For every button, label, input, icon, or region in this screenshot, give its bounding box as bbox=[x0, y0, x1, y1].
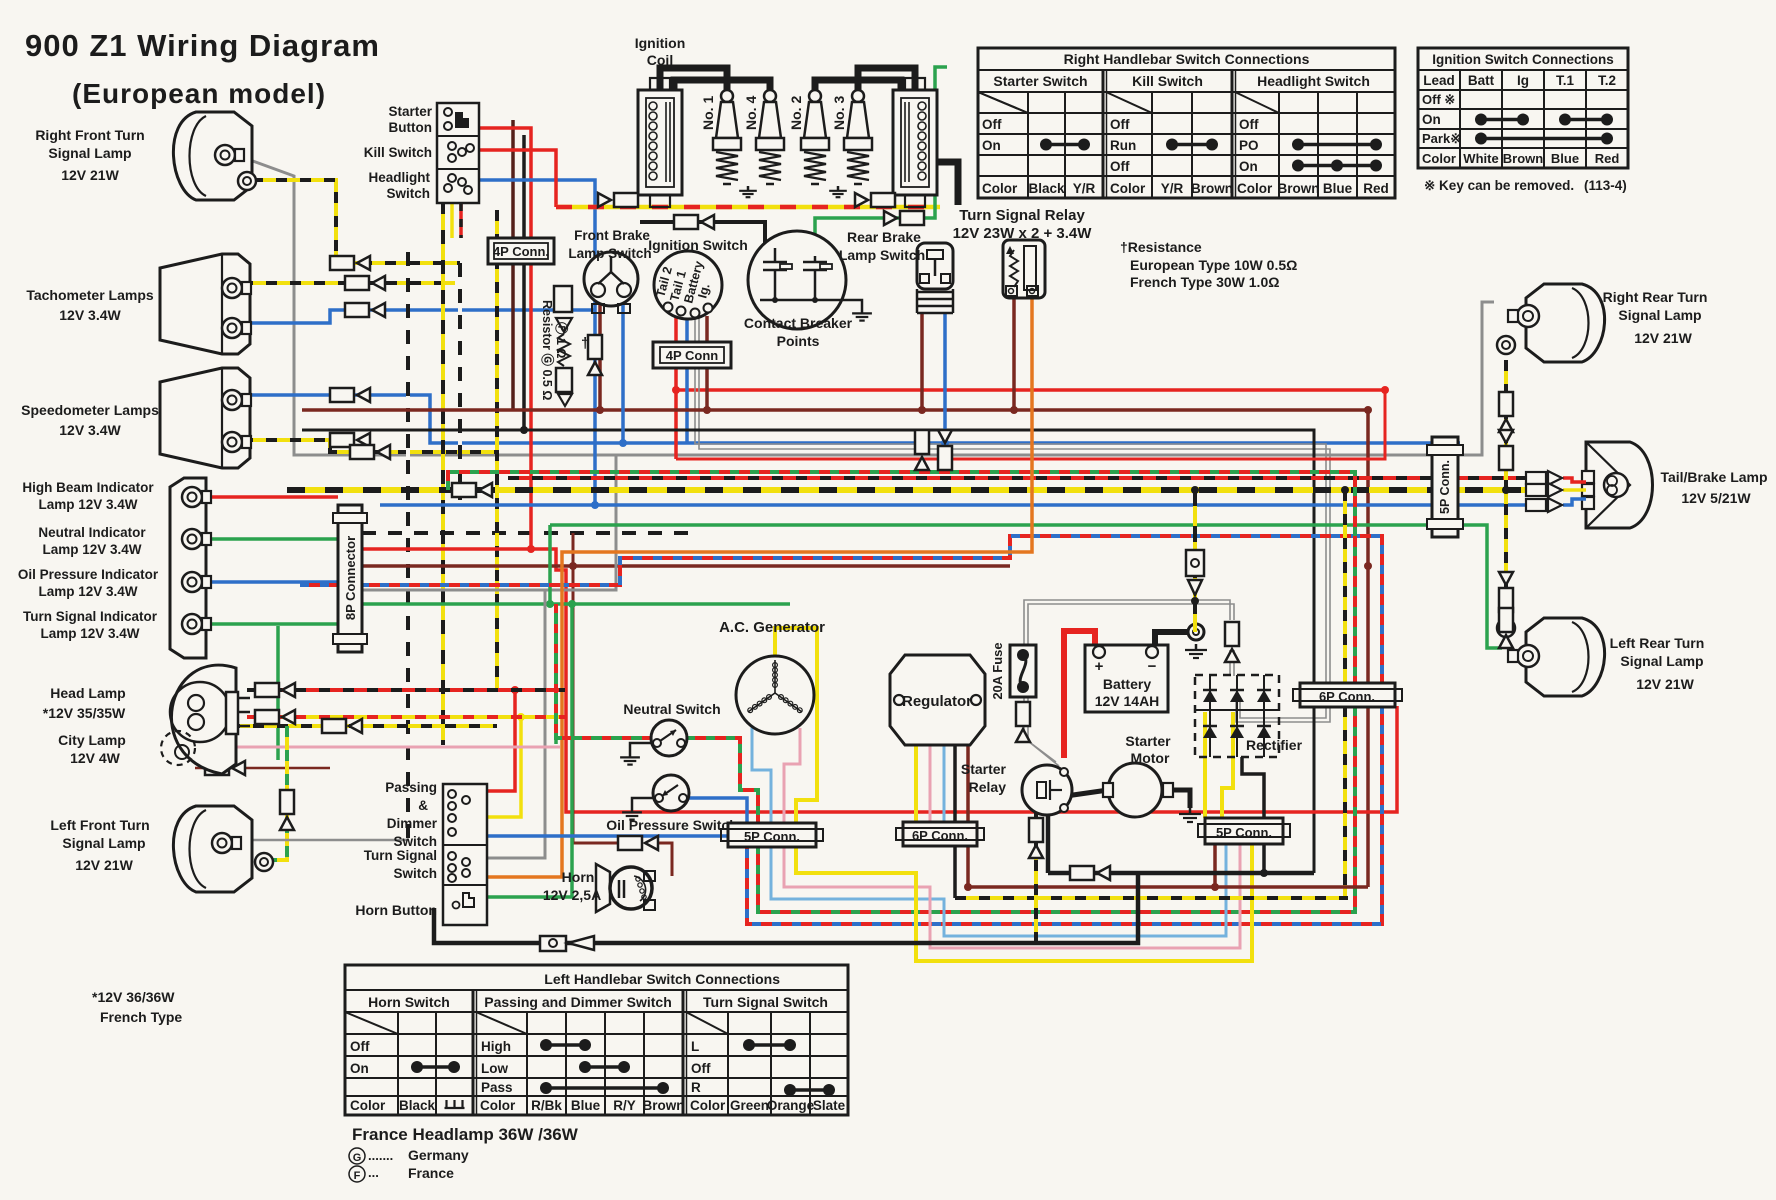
wire black dash vertical x408 bbox=[406, 252, 410, 840]
6P connector right bbox=[1300, 683, 1395, 707]
wire red/green dash band y472 bbox=[448, 472, 1355, 912]
svg-text:Headlight Switch: Headlight Switch bbox=[1257, 73, 1370, 89]
wire black thick battery minus bbox=[1155, 632, 1189, 652]
svg-text:Off ※: Off ※ bbox=[1422, 92, 1455, 107]
svg-text:Brown: Brown bbox=[1503, 151, 1544, 166]
svg-text:On: On bbox=[982, 138, 1001, 153]
svg-text:Off: Off bbox=[350, 1039, 370, 1054]
wire yellow/black bottom band y898 bbox=[955, 896, 1348, 900]
svg-text:Oil Pressure Indicator: Oil Pressure Indicator bbox=[18, 567, 159, 582]
svg-text:4P Conn.: 4P Conn. bbox=[493, 244, 549, 259]
svg-text:France Headlamp 36W /36W: France Headlamp 36W /36W bbox=[352, 1125, 579, 1144]
bullet connectors bbox=[330, 256, 354, 270]
wire pink AC generator bbox=[784, 728, 800, 823]
20A fuse bbox=[1010, 645, 1036, 697]
wire blue oil indicator bbox=[204, 580, 338, 584]
svg-text:12V 3.4W: 12V 3.4W bbox=[59, 307, 121, 323]
fuse lead connector bbox=[1016, 702, 1030, 726]
wire black starter main line y873 bbox=[1048, 871, 1314, 876]
svg-text:Run: Run bbox=[1110, 138, 1136, 153]
svg-text:Passing and Dimmer Switch: Passing and Dimmer Switch bbox=[484, 994, 672, 1010]
wire red band y549 bbox=[362, 549, 1397, 812]
wire dark brown vertical from switch box bbox=[511, 120, 515, 410]
wire yellow/red headlamp y717 bbox=[247, 715, 565, 719]
wire black jumper bottom bbox=[1036, 873, 1138, 943]
tail lamp bullet connectors bbox=[1526, 472, 1546, 484]
svg-text:Germany: Germany bbox=[408, 1147, 469, 1163]
battery bbox=[1085, 645, 1168, 712]
svg-text:Signal Lamp: Signal Lamp bbox=[1618, 307, 1701, 323]
wire green turn indicator bbox=[204, 622, 338, 626]
svg-text:6P Conn.: 6P Conn. bbox=[1319, 689, 1375, 704]
svg-text:Red: Red bbox=[1595, 151, 1620, 166]
wire red long y390 bbox=[676, 388, 1385, 392]
AC generator bbox=[736, 656, 814, 734]
wire brown to horn bbox=[573, 533, 618, 843]
wire black regulator bbox=[953, 745, 957, 822]
svg-text:Low: Low bbox=[481, 1061, 508, 1076]
wire pink 5P conn loop bbox=[784, 845, 1240, 948]
svg-text:Color: Color bbox=[1422, 151, 1456, 166]
svg-text:Off: Off bbox=[1110, 159, 1130, 174]
wire red passing switch up to headlamp row bbox=[486, 690, 515, 791]
spark plug grounds bbox=[747, 186, 750, 191]
svg-text:−: − bbox=[1148, 658, 1157, 675]
svg-text:City Lamp: City Lamp bbox=[58, 732, 126, 748]
4P connector ignition switch bbox=[653, 342, 731, 368]
svg-text:12V 3.4W: 12V 3.4W bbox=[59, 422, 121, 438]
svg-text:Rear Brake: Rear Brake bbox=[847, 229, 921, 245]
indicator lamp panel bbox=[170, 478, 206, 658]
5P connector vertical right bbox=[1432, 437, 1458, 537]
horn bbox=[596, 864, 610, 912]
svg-text:12V 21W: 12V 21W bbox=[1634, 330, 1692, 346]
wire green vertical x556 bbox=[554, 604, 558, 744]
svg-text:High: High bbox=[481, 1039, 511, 1054]
wire grey right rear lamp bbox=[1443, 302, 1494, 455]
wire red to tail lamp terminal bbox=[1563, 478, 1586, 482]
wire yellow switch box to 4P conn bbox=[450, 203, 454, 238]
city lamp bbox=[161, 731, 195, 765]
wire brown regulator bbox=[966, 745, 970, 822]
svg-text:12V 14AH: 12V 14AH bbox=[1095, 693, 1160, 709]
svg-text:Signal Lamp: Signal Lamp bbox=[48, 145, 131, 161]
svg-text:French Type 30W 1.0Ω: French Type 30W 1.0Ω bbox=[1130, 274, 1279, 290]
wire green turn signal switch up bbox=[486, 604, 572, 897]
svg-text:Relay: Relay bbox=[969, 779, 1007, 795]
svg-text:Brown: Brown bbox=[643, 1098, 685, 1113]
thick black lead right coil down bbox=[937, 162, 958, 205]
svg-text:Neutral Switch: Neutral Switch bbox=[623, 701, 720, 717]
horn circuit bullet bbox=[540, 936, 566, 951]
svg-text:Blue: Blue bbox=[1323, 181, 1353, 196]
svg-text:Off: Off bbox=[691, 1061, 711, 1076]
wire brown 5P right leg bbox=[1213, 845, 1217, 887]
wire yellow right rear turn signal vertical bbox=[1504, 360, 1508, 640]
svg-text:Switch: Switch bbox=[386, 186, 430, 201]
left front turn signal lamp bbox=[173, 806, 252, 892]
wire blue to tail lamp terminal bbox=[1563, 499, 1586, 505]
svg-text:5P Conn.: 5P Conn. bbox=[1216, 825, 1272, 840]
spark plug 1 bbox=[721, 90, 733, 102]
svg-text:Switch: Switch bbox=[393, 834, 437, 849]
wire yellow/black band to ground bolt bbox=[1193, 490, 1197, 632]
left rear turn signal lamp bbox=[1526, 618, 1605, 696]
svg-text:On: On bbox=[1422, 112, 1441, 127]
wire brown ignition switch down bbox=[705, 316, 709, 410]
svg-text:Lamp 12V 3.4W: Lamp 12V 3.4W bbox=[40, 626, 139, 641]
wire black long y430 to starter relay bbox=[302, 430, 1314, 873]
svg-text:Lamp 12V 3.4W: Lamp 12V 3.4W bbox=[42, 542, 141, 557]
svg-text:Starter: Starter bbox=[1125, 733, 1171, 749]
svg-text:12V 21W: 12V 21W bbox=[75, 857, 133, 873]
svg-text:F: F bbox=[354, 1170, 361, 1182]
svg-text:Color: Color bbox=[480, 1098, 516, 1113]
regulator bbox=[890, 655, 985, 745]
oil pressure switch bbox=[653, 775, 689, 811]
svg-text:Regulator: Regulator bbox=[902, 693, 972, 710]
wire yellow/black right front turn signal bbox=[252, 180, 460, 263]
svg-text:Right Front Turn: Right Front Turn bbox=[35, 127, 144, 143]
svg-text:White: White bbox=[1463, 151, 1498, 166]
svg-text:Head Lamp: Head Lamp bbox=[50, 685, 125, 701]
wire red high beam bbox=[204, 495, 338, 499]
svg-text:Color: Color bbox=[350, 1098, 386, 1113]
handlebar switch box bbox=[437, 103, 479, 203]
table Left Handlebar Switch Connections bbox=[345, 965, 848, 1115]
wire red thick battery to starter relay bbox=[1064, 631, 1095, 758]
neutral switch bbox=[651, 720, 687, 756]
wire black to contact breaker bbox=[640, 222, 765, 248]
wire green neutral indicator bbox=[204, 537, 338, 541]
wire thin grey twisted pair fuse to rectifier bbox=[1024, 600, 1230, 645]
svg-text:*12V 35/35W: *12V 35/35W bbox=[43, 705, 126, 721]
svg-text:European Type 10W 0.5Ω: European Type 10W 0.5Ω bbox=[1130, 257, 1297, 273]
wire yellow regulator bbox=[914, 745, 918, 822]
svg-text:...: ... bbox=[368, 1165, 379, 1180]
wire green y604 from 8P connector bbox=[362, 602, 790, 606]
wire grey left front lamp bbox=[248, 839, 408, 842]
svg-text:Contact Breaker: Contact Breaker bbox=[744, 315, 853, 331]
svg-text:Turn Signal Indicator: Turn Signal Indicator bbox=[23, 609, 158, 624]
svg-text:Dimmer: Dimmer bbox=[387, 816, 438, 831]
svg-text:12V 23W x 2 + 3.4W: 12V 23W x 2 + 3.4W bbox=[953, 225, 1093, 242]
wire yellow AC generator bbox=[775, 628, 817, 823]
svg-text:Lamp Switch: Lamp Switch bbox=[568, 246, 651, 261]
svg-text:L: L bbox=[691, 1039, 699, 1054]
wire red/black dash band y478 bbox=[508, 476, 1528, 480]
svg-text:Black: Black bbox=[1028, 181, 1065, 196]
wire red/green neutral switch to 5P conn bbox=[686, 738, 758, 823]
svg-text:※ Key can be removed.: ※ Key can be removed. bbox=[1424, 178, 1574, 193]
5P connector right bbox=[1205, 818, 1283, 844]
svg-text:Lamp Switch: Lamp Switch bbox=[839, 247, 925, 263]
svg-text:Color: Color bbox=[690, 1098, 726, 1113]
svg-text:Passing: Passing bbox=[385, 780, 437, 795]
svg-text:Right Rear Turn: Right Rear Turn bbox=[1603, 289, 1708, 305]
wire blue rear brake leg bbox=[943, 312, 947, 443]
svg-text:Front Brake: Front Brake bbox=[574, 228, 650, 243]
svg-text:Ignition Switch: Ignition Switch bbox=[648, 237, 748, 253]
wire blue speedometer bbox=[242, 395, 1460, 443]
wire green vertical x278 bbox=[276, 626, 280, 760]
svg-text:No. 4: No. 4 bbox=[743, 96, 759, 130]
svg-text:Horn Button: Horn Button bbox=[355, 902, 437, 918]
5P connector left bbox=[728, 823, 816, 847]
svg-text:Brown: Brown bbox=[1191, 181, 1233, 196]
svg-text:Batt: Batt bbox=[1468, 73, 1495, 88]
wire red kill switch to coil bbox=[479, 150, 556, 207]
svg-text:Color: Color bbox=[1110, 181, 1146, 196]
wire blue dimmer switch to 5P conn bbox=[486, 834, 728, 838]
svg-text:5P Conn.: 5P Conn. bbox=[744, 829, 800, 844]
svg-text:12V 2,5A: 12V 2,5A bbox=[543, 887, 601, 903]
wire black horn button loop bbox=[434, 908, 1036, 943]
front brake lamp switch bbox=[584, 252, 638, 306]
table Right Handlebar Switch Connections bbox=[978, 48, 1395, 198]
spark plug 2 bbox=[809, 90, 821, 102]
ignition switch bbox=[654, 251, 722, 319]
svg-text:Switch: Switch bbox=[393, 866, 437, 881]
4P connector top bbox=[488, 238, 554, 264]
svg-text:Tail/Brake Lamp: Tail/Brake Lamp bbox=[1660, 469, 1767, 485]
wire blue oil switch to 5P conn bbox=[688, 798, 747, 823]
wire blue band y511 bbox=[380, 503, 1528, 507]
wire black 5P right leg to starter line bbox=[1262, 845, 1266, 873]
wire red vertical from starter button bbox=[479, 128, 531, 549]
svg-text:900 Z1 Wiring Diagram: 900 Z1 Wiring Diagram bbox=[25, 28, 380, 63]
wire black starter relay to motor bbox=[1066, 790, 1108, 796]
wire black dash row y533 bbox=[362, 531, 700, 535]
svg-text:Park※: Park※ bbox=[1422, 131, 1461, 146]
head lamp bbox=[171, 665, 236, 774]
wire grey pair ignition switch bbox=[695, 316, 1326, 718]
wire brown turn signal relay bbox=[1012, 298, 1016, 410]
contact breaker points bbox=[748, 231, 846, 329]
wire yellow/black vertical x1345 bbox=[1343, 490, 1347, 898]
tachometer lamps bbox=[160, 254, 250, 354]
wire yellow/green vertical x287 bbox=[265, 726, 287, 860]
svg-text:Starter: Starter bbox=[961, 761, 1007, 777]
svg-text:Horn: Horn bbox=[562, 869, 595, 885]
spark plug 4 bbox=[764, 90, 776, 102]
svg-text:Lamp 12V 3.4W: Lamp 12V 3.4W bbox=[38, 497, 137, 512]
wire black rectifier to 5P conn bbox=[1242, 757, 1264, 818]
svg-text:Oil Pressure Switch: Oil Pressure Switch bbox=[606, 817, 738, 833]
svg-text:Kill Switch: Kill Switch bbox=[1132, 73, 1203, 89]
svg-text:Lead: Lead bbox=[1423, 73, 1455, 88]
wire yellow 5P conn loop bbox=[796, 845, 1252, 961]
wire blue front brake leg bbox=[621, 305, 625, 443]
wire red/yellow under ignition coils bbox=[556, 205, 940, 210]
svg-text:PO: PO bbox=[1239, 138, 1259, 153]
wire yellow/black vertical x497 bbox=[495, 210, 499, 692]
svg-text:4P Conn: 4P Conn bbox=[666, 348, 719, 363]
svg-text:Left Rear Turn: Left Rear Turn bbox=[1610, 635, 1705, 651]
turn signal relay bbox=[1003, 240, 1045, 298]
8P connector bbox=[338, 505, 362, 652]
wire dark brown long y410 bbox=[302, 408, 1368, 412]
svg-text:Signal Lamp: Signal Lamp bbox=[1620, 653, 1703, 669]
svg-text:Turn Signal: Turn Signal bbox=[364, 848, 437, 863]
svg-text:12V 5/21W: 12V 5/21W bbox=[1681, 490, 1751, 506]
svg-text:Red: Red bbox=[1363, 181, 1389, 196]
wire brown front brake leg bbox=[598, 305, 602, 410]
svg-text:French Type: French Type bbox=[100, 1009, 182, 1025]
wire green vertical x550 bbox=[548, 525, 552, 604]
wire brown bottom band y887 bbox=[966, 845, 970, 887]
ignition coil left bbox=[638, 90, 682, 195]
svg-text:Left Front Turn: Left Front Turn bbox=[50, 817, 149, 833]
starter relay bbox=[1022, 765, 1072, 815]
rectifier bbox=[1195, 675, 1279, 757]
wire green/red neutral switch left bbox=[556, 604, 652, 738]
svg-text:Y/R: Y/R bbox=[1161, 181, 1184, 196]
svg-text:20A Fuse: 20A Fuse bbox=[990, 642, 1005, 699]
wire yellow/black main band y496 bbox=[287, 487, 1528, 493]
svg-text:Blue: Blue bbox=[571, 1098, 601, 1113]
tail brake lamp bbox=[1586, 442, 1653, 528]
svg-text:Ig: Ig bbox=[1517, 73, 1529, 88]
svg-text:Color: Color bbox=[1237, 181, 1273, 196]
svg-text:Orange: Orange bbox=[767, 1098, 815, 1113]
svg-text:Speedometer Lamps: Speedometer Lamps bbox=[21, 402, 159, 418]
svg-text:Tachometer Lamps: Tachometer Lamps bbox=[26, 287, 154, 303]
wire brown vertical x1368 bbox=[1366, 410, 1370, 887]
svg-text:12V 21W: 12V 21W bbox=[1636, 676, 1694, 692]
table Ignition Switch Connections bbox=[1418, 48, 1628, 168]
wire black starter motor ground bbox=[1162, 790, 1190, 808]
svg-text:Color: Color bbox=[982, 181, 1018, 196]
wire blue tachometer bbox=[242, 310, 595, 323]
svg-text:G: G bbox=[353, 1152, 362, 1164]
wire black 6P to bottom band bbox=[953, 845, 957, 898]
resistor bbox=[554, 286, 572, 312]
svg-text:Neutral Indicator: Neutral Indicator bbox=[38, 525, 146, 540]
svg-text:Turn Signal Relay: Turn Signal Relay bbox=[959, 207, 1085, 224]
wire grey right-front-lamp to 6P conn bbox=[250, 160, 1434, 455]
wire black vertical from switch box bbox=[522, 135, 526, 430]
speedometer lamps bbox=[160, 368, 250, 468]
passing dimmer turn horn switch box bbox=[443, 784, 487, 925]
wire pink city lamp bbox=[190, 746, 560, 749]
wire blue/red dash band y551 bbox=[300, 536, 1382, 924]
svg-text:Y/R: Y/R bbox=[1073, 181, 1096, 196]
wire yellow/black city y726 bbox=[205, 724, 497, 728]
svg-text:No. 3: No. 3 bbox=[831, 96, 847, 130]
svg-text:Blue: Blue bbox=[1551, 151, 1579, 166]
svg-text:&: & bbox=[418, 798, 428, 813]
svg-text:Horn Switch: Horn Switch bbox=[368, 994, 450, 1010]
svg-text:Motor: Motor bbox=[1131, 750, 1170, 766]
svg-text:Ⓕ 1 Ω: Ⓕ 1 Ω bbox=[554, 322, 569, 358]
wire light blue AC generator bbox=[752, 722, 771, 823]
wire yellow/black speedometer bbox=[242, 440, 497, 452]
wire light blue 5P conn loop bbox=[771, 845, 1226, 936]
wire brown city lamp bbox=[195, 767, 330, 770]
wire brown bullet to horn bbox=[618, 836, 642, 850]
svg-text:Starter: Starter bbox=[388, 104, 432, 119]
wire black dash vertical x460 bbox=[458, 263, 462, 500]
svg-text:No. 1: No. 1 bbox=[700, 96, 716, 130]
spark plug high tension leads bbox=[660, 68, 727, 92]
wire grey dimmer switch up bbox=[486, 590, 545, 858]
svg-text:Starter Switch: Starter Switch bbox=[993, 73, 1087, 89]
svg-text:T.2: T.2 bbox=[1598, 73, 1616, 88]
svg-text:Headlight: Headlight bbox=[368, 170, 430, 185]
rear brake lamp switch bbox=[917, 243, 953, 289]
wire yellow rectifier legs to 5P conn bbox=[1203, 712, 1207, 818]
wire blue ignition switch down bbox=[685, 316, 689, 443]
svg-text:France: France bbox=[408, 1165, 454, 1181]
wire pink regulator bbox=[929, 745, 932, 822]
svg-text:R: R bbox=[691, 1080, 701, 1095]
svg-text:8P Connector: 8P Connector bbox=[343, 536, 358, 620]
svg-text:†Resistance: †Resistance bbox=[1120, 239, 1202, 255]
svg-text:Battery: Battery bbox=[1103, 676, 1151, 692]
svg-text:High Beam Indicator: High Beam Indicator bbox=[22, 480, 154, 495]
wire yellow/black starter relay down bbox=[1034, 812, 1038, 943]
svg-text:A.C. Generator: A.C. Generator bbox=[719, 619, 825, 636]
svg-text:No. 2: No. 2 bbox=[788, 96, 804, 130]
svg-text:On: On bbox=[1239, 159, 1258, 174]
svg-text:(European model): (European model) bbox=[72, 78, 326, 109]
svg-text:Off: Off bbox=[1239, 117, 1259, 132]
svg-text:On: On bbox=[350, 1061, 369, 1076]
wire yellow to tail lamp terminal bbox=[1563, 488, 1586, 492]
wire green band to left rear lamp bbox=[550, 525, 1502, 648]
wire yellow dimmer switch up to headlamp row bbox=[486, 717, 521, 817]
wire thin grey pair fuse to starter relay bbox=[1024, 697, 1056, 762]
wire red/black headlamp y690 bbox=[247, 688, 565, 692]
svg-text:Right Handlebar Switch Connect: Right Handlebar Switch Connections bbox=[1064, 51, 1310, 67]
svg-text:+: + bbox=[1095, 658, 1104, 675]
wire red ignition switch down bbox=[674, 316, 678, 459]
svg-text:12V 4W: 12V 4W bbox=[70, 750, 121, 766]
wire grey band y590 bbox=[362, 455, 616, 590]
wire brown band y566 bbox=[362, 564, 1010, 568]
svg-text:5P Conn.: 5P Conn. bbox=[1438, 460, 1452, 514]
svg-text:Pass: Pass bbox=[481, 1080, 513, 1095]
svg-text:Signal Lamp: Signal Lamp bbox=[62, 835, 145, 851]
svg-text:12V 21W: 12V 21W bbox=[61, 167, 119, 183]
svg-text:Button: Button bbox=[389, 120, 432, 135]
wire green contact breaker to top bbox=[815, 67, 947, 260]
6P connector regulator bbox=[903, 822, 977, 846]
svg-text:Brown: Brown bbox=[1278, 181, 1320, 196]
svg-text:Kill Switch: Kill Switch bbox=[364, 145, 432, 160]
wire yellow/black tachometer bbox=[242, 281, 455, 285]
svg-text:T.1: T.1 bbox=[1556, 73, 1575, 88]
svg-text:6P Conn.: 6P Conn. bbox=[912, 828, 968, 843]
svg-text:(113-4): (113-4) bbox=[1584, 178, 1627, 193]
svg-text:Black: Black bbox=[399, 1098, 436, 1113]
wire light blue regulator bbox=[943, 745, 946, 822]
svg-text:Turn Signal Switch: Turn Signal Switch bbox=[703, 994, 828, 1010]
wire red to band y459 bbox=[676, 390, 1385, 459]
svg-text:Green: Green bbox=[730, 1098, 769, 1113]
wire yellow vertical x443 bbox=[441, 200, 445, 745]
svg-text:*12V 36/36W: *12V 36/36W bbox=[92, 989, 175, 1005]
right front turn signal lamp bbox=[173, 112, 252, 200]
svg-text:Left Handlebar Switch Connecti: Left Handlebar Switch Connections bbox=[544, 971, 780, 987]
svg-text:Off: Off bbox=[982, 117, 1002, 132]
svg-text:Ignition: Ignition bbox=[635, 35, 686, 51]
svg-text:.......: ....... bbox=[368, 1148, 393, 1163]
right rear turn signal lamp bbox=[1526, 284, 1605, 362]
wire black starter relay to main line bbox=[1046, 812, 1051, 873]
svg-text:R/Bk: R/Bk bbox=[531, 1098, 562, 1113]
